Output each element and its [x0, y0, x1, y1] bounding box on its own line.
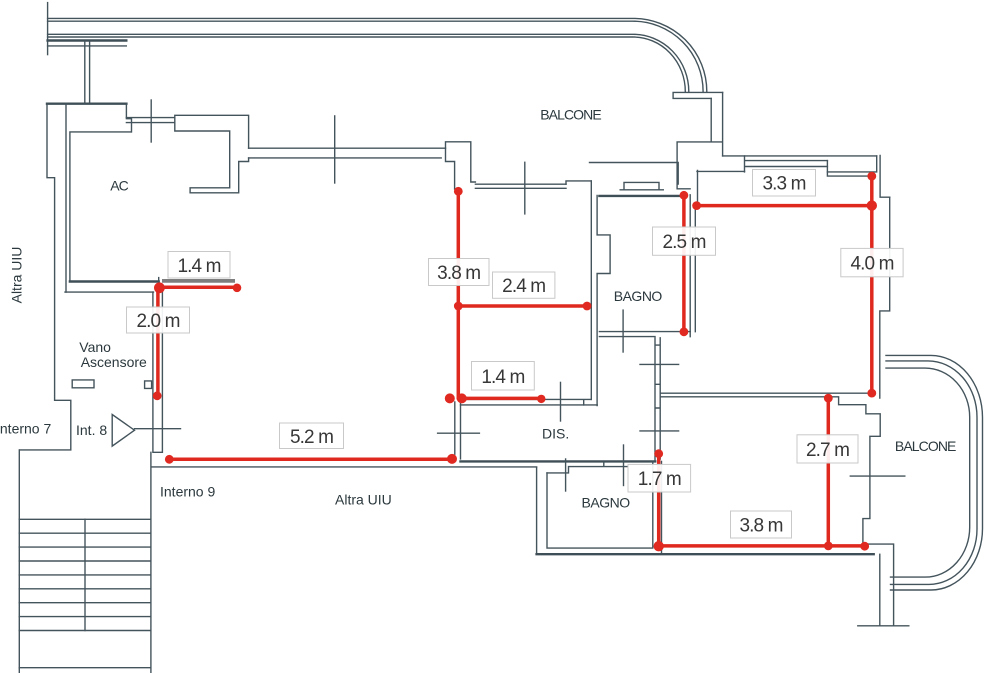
right balcony railing inner: [886, 368, 970, 577]
dim box 3.3 m: [753, 170, 816, 197]
cross tick 1.4m wall end: [560, 382, 562, 421]
svg-text:DIS.: DIS.: [542, 425, 569, 441]
dim box 1.7 m: [628, 464, 691, 492]
red dots 1.4m/2.0m: [154, 282, 165, 293]
measured wall 1.4m (thick gray bar): [162, 279, 235, 283]
wall below ledge: [677, 92, 723, 188]
svg-text:AC: AC: [110, 178, 128, 194]
svg-text:1.4 m: 1.4 m: [481, 367, 524, 388]
cross tick balcony right wall: [850, 475, 905, 477]
svg-text:Interno 7: Interno 7: [0, 421, 51, 437]
svg-text:BALCONE: BALCONE: [895, 438, 956, 454]
dim box 2.4 m: [493, 272, 555, 298]
balcony top railing end tick: [47, 3, 49, 55]
svg-text:1.7 m: 1.7 m: [638, 469, 681, 490]
red line 5.2m: [169, 458, 452, 462]
svg-text:BAGNO: BAGNO: [582, 494, 631, 510]
living room right wall: [590, 181, 592, 400]
svg-text:2.7 m: 2.7 m: [806, 440, 849, 461]
wall band lower line: [48, 45, 127, 47]
bagno top room top wall: [599, 195, 683, 197]
red line 1.7m vertical: [657, 454, 661, 547]
camera window sill: [745, 156, 828, 172]
balcony top railing line 4: [48, 37, 686, 92]
left outer wall: [20, 104, 71, 450]
dim box 3.8 m bottom: [731, 511, 792, 538]
bedroom right stepped wall: [839, 398, 894, 625]
svg-text:1.4 m: 1.4 m: [177, 256, 220, 277]
red line 1.4m top: [160, 286, 237, 290]
red line 2.4m: [458, 304, 587, 308]
bagno bottom top edge detail: [547, 462, 627, 473]
red dots 3.8m bottom: [654, 541, 664, 551]
DIS top wall: [461, 404, 598, 406]
svg-text:BALCONE: BALCONE: [540, 107, 601, 123]
svg-text:3.8 m: 3.8 m: [437, 263, 480, 284]
living room top wall double: [475, 184, 566, 188]
svg-text:2.4 m: 2.4 m: [502, 276, 545, 297]
red dots 5.2m: [165, 455, 174, 464]
AC top wall step: [126, 104, 131, 132]
bagno bottom walls: [537, 461, 653, 554]
DIS bottom wall: [461, 460, 656, 462]
cross tick DIS left wall: [438, 432, 480, 434]
corridor double line to window block: [249, 148, 446, 158]
int.8 door line: [135, 428, 181, 430]
bagno top bottom wall: [599, 332, 690, 337]
svg-text:Altra UIU: Altra UIU: [335, 492, 392, 508]
bedroom left wall lower: [661, 461, 663, 554]
room bottom wall to DIS step: [461, 399, 592, 405]
vano ascensore door rect 2: [145, 381, 152, 389]
svg-text:3.8 m: 3.8 m: [739, 516, 782, 537]
cross tick bagno top bottom wall: [622, 310, 624, 352]
window block (start of 3.8m): [446, 142, 476, 189]
cross tick bagno bottom top wall: [565, 459, 567, 491]
red line 3.8m bottom: [659, 544, 865, 548]
left inner wall line: [65, 104, 67, 292]
camera right wall: [880, 197, 890, 398]
bedroom top wall double: [660, 393, 872, 397]
red line 1.4m lower: [458, 397, 541, 401]
stair center divider: [84, 519, 86, 630]
balcony top railing line 2: [48, 21, 704, 91]
wall piece left of camera top: [697, 171, 745, 205]
bagno-camera wall double: [690, 195, 695, 337]
stair bottom line: [19, 667, 151, 669]
central corridor wall double: [655, 338, 660, 462]
AC room inner outline: [70, 132, 131, 282]
living room top wall right step: [566, 181, 591, 184]
cross tick corridor window: [334, 116, 336, 183]
corridor lower line below AC: [65, 291, 154, 293]
dim box 2.5 m: [653, 227, 716, 255]
int.8 door triangle: [112, 415, 134, 447]
red dots 2.5m: [680, 191, 689, 200]
upper outer wall over bagno: [590, 163, 679, 185]
red dot 1.7m top: [654, 449, 663, 458]
balcony ledge slab top-right: [673, 92, 723, 98]
camera right outer corner: [880, 155, 890, 197]
red line 2.0m: [156, 288, 160, 396]
cross tick central wall upper: [640, 363, 679, 365]
right balcony railing middle: [886, 361, 977, 585]
red line 3.3m: [697, 204, 872, 208]
dim box 4.0 m: [841, 248, 903, 276]
dim box 2.0 m: [127, 307, 190, 333]
svg-text:BAGNO: BAGNO: [614, 288, 663, 304]
vano ascensore door rect 1: [72, 380, 94, 388]
right balcony railing outer: [886, 355, 983, 590]
cross tick bagno bottom: [623, 445, 625, 486]
big bottom wall: [537, 553, 874, 555]
svg-text:3.3 m: 3.3 m: [762, 174, 805, 195]
cross tick central wall lower: [640, 430, 679, 432]
double wall connecting railing to AC room: [85, 41, 90, 104]
balcony top railing line 3: [48, 34, 689, 91]
dim box 2.7 m: [797, 435, 858, 463]
camera step to 4.0m corner: [827, 161, 871, 177]
red line 4.0m vertical: [870, 176, 874, 393]
cross tick top-left wall: [150, 100, 152, 142]
AC bottom wall end tick: [158, 278, 160, 282]
AC room bottom wall: [70, 280, 159, 282]
svg-text:Int. 8: Int. 8: [76, 422, 107, 438]
stairwell left wall: [18, 450, 20, 673]
red line 2.5m vertical: [682, 195, 686, 331]
wall band below railing left: [48, 39, 127, 41]
bagno top inner-left wall with niche: [597, 196, 610, 406]
vano ascensore right wall double: [153, 289, 163, 453]
red dots 3.8m/2.4m/1.4m: [454, 187, 463, 196]
dim box 3.8 m left: [429, 259, 490, 286]
cross tick living room top: [524, 162, 526, 214]
svg-text:2.0 m: 2.0 m: [136, 311, 179, 332]
svg-text:4.0 m: 4.0 m: [850, 254, 893, 275]
svg-text:Interno 9: Interno 9: [160, 484, 215, 500]
DIS left wall double: [455, 402, 461, 459]
svg-text:Vano: Vano: [79, 339, 111, 355]
dim box 5.2 m: [280, 423, 344, 449]
camera inner top wall right: [827, 156, 876, 172]
red dots 3.3m/4.0m: [692, 201, 701, 210]
dim box 1.4 m top: [168, 252, 230, 279]
svg-text:Altra UIU: Altra UIU: [9, 247, 25, 304]
svg-text:Ascensore: Ascensore: [81, 354, 147, 370]
window pair top-left: [126, 118, 174, 123]
AC room top outer wall: [47, 102, 126, 104]
bottom slab line: [858, 625, 909, 627]
stairwell right wall: [150, 452, 152, 673]
lower wall to slab: [879, 554, 881, 625]
svg-text:2.5 m: 2.5 m: [662, 232, 705, 253]
dim box 1.4 m lower: [472, 362, 535, 391]
balcony top railing line 1: [48, 18, 707, 91]
bagno top window: [620, 182, 663, 189]
stair treads: [19, 519, 151, 630]
corridor bottom wall (interno 9): [151, 466, 536, 468]
red dot 2.7m top: [824, 394, 833, 403]
C-shaped wall block right of AC: [175, 115, 249, 193]
red line 2.7m vertical: [827, 398, 831, 546]
red line 3.8m vertical: [457, 191, 461, 398]
camera top outer wall: [723, 155, 877, 157]
svg-text:5.2 m: 5.2 m: [290, 427, 333, 448]
